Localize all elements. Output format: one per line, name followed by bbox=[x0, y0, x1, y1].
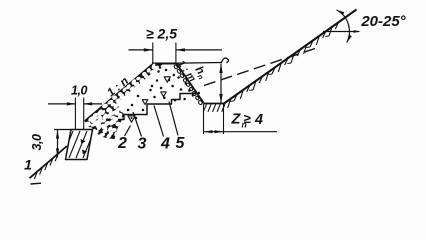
berm floor bbox=[204, 103, 225, 105]
stone row on right slope bbox=[174, 65, 203, 106]
crest level line with hook bbox=[153, 58, 228, 63]
dimension ge 2,5 extension lines bbox=[153, 43, 176, 64]
leader 4 bbox=[154, 106, 164, 137]
svg-text:1: 1 bbox=[24, 157, 32, 173]
dashed original-surface line bbox=[204, 48, 318, 86]
natural hillside ground line (right) bbox=[224, 10, 357, 104]
solid triangles in block bbox=[81, 139, 86, 144]
riprap stone band on left slope bbox=[85, 64, 163, 139]
dimension h_n line with arrows bbox=[219, 64, 222, 104]
svg-text:3: 3 bbox=[138, 136, 147, 153]
hillside hatching bbox=[228, 23, 338, 108]
leader 3 bbox=[133, 112, 142, 137]
leader 2 bbox=[125, 126, 131, 137]
dimension 3,0 line with arrows bbox=[56, 130, 59, 158]
svg-text:20-25°: 20-25° bbox=[360, 13, 406, 30]
dimension 1,0 extension lines bbox=[75, 98, 83, 130]
svg-text:2: 2 bbox=[117, 135, 127, 152]
right slope line 1:m bbox=[177, 64, 205, 104]
dimension Z_n line with arrows bbox=[204, 130, 278, 133]
svg-text:5: 5 bbox=[176, 135, 186, 152]
svg-text:4: 4 bbox=[160, 136, 170, 153]
berm underside hatching bbox=[203, 104, 225, 112]
svg-text:Z: Z bbox=[231, 112, 242, 128]
angle arc 20-25deg bbox=[337, 10, 352, 43]
ground line (lower left) bbox=[30, 146, 68, 178]
svg-text:1,0: 1,0 bbox=[71, 84, 87, 98]
bench steps cut into slope bbox=[118, 94, 196, 120]
leader 5 bbox=[169, 102, 178, 136]
dimension ge 2,5 line with arrows bbox=[129, 48, 223, 51]
dimension 3,0 top reference bbox=[54, 129, 71, 131]
svg-text:≥: ≥ bbox=[244, 111, 252, 126]
svg-text:4: 4 bbox=[254, 112, 263, 128]
toe block (banquette) bbox=[62, 130, 94, 160]
dimension Z_n extension lines bbox=[204, 104, 224, 134]
end dash of ground line bbox=[31, 182, 42, 185]
svg-text:3,0: 3,0 bbox=[30, 134, 44, 150]
soil symbols (triangles) bbox=[128, 77, 170, 122]
left ground hatching bbox=[34, 154, 57, 179]
dimension 1,0 line with arrows bbox=[48, 102, 102, 105]
angle reference horizontal line bbox=[323, 30, 361, 33]
label Z_n ge 4 bbox=[231, 111, 264, 130]
crest surface bbox=[152, 63, 177, 65]
sand core dots bbox=[127, 66, 200, 119]
svg-text:≥ 2,5: ≥ 2,5 bbox=[146, 26, 177, 42]
